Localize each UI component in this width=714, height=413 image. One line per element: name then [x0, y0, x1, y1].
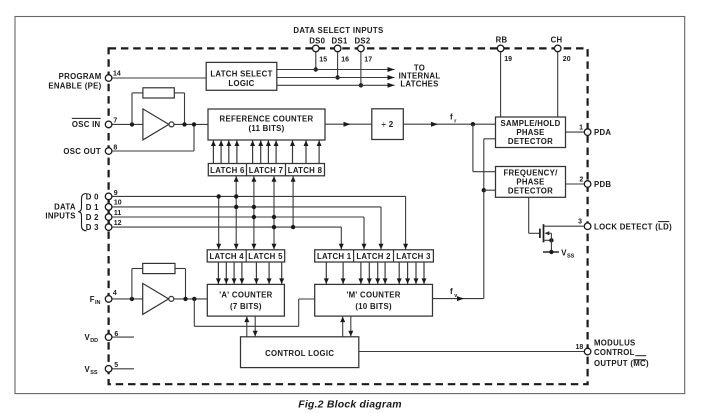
reference counter block: [208, 109, 325, 140]
svg-text:RB: RB: [496, 36, 508, 45]
svg-text:FREQUENCY/: FREQUENCY/: [503, 168, 558, 177]
svg-text:÷ 2: ÷ 2: [382, 120, 394, 129]
svg-text:LATCH 6: LATCH 6: [210, 166, 245, 175]
svg-text:(7 BITS): (7 BITS): [230, 302, 262, 311]
wire divide-by-2 to sample/hold node fr: [403, 123, 495, 125]
pin 8 terminal OSC OUT: [105, 148, 112, 155]
wire D0 tap down to latch 4: [218, 196, 220, 249]
wire FIN bypass to M counter: [193, 299, 195, 326]
svg-text:4: 4: [113, 290, 117, 297]
wire DS2 drop to latch-select output 3: [360, 52, 362, 86]
pin 11 terminal D2: [105, 214, 112, 221]
svg-text:PHASE: PHASE: [516, 128, 544, 137]
M counter block: [315, 284, 433, 316]
pin 3 terminal LD: [584, 223, 591, 230]
svg-text:LATCH SELECT: LATCH SELECT: [210, 69, 272, 78]
svg-text:14: 14: [113, 71, 121, 78]
pin 9 terminal D0: [105, 193, 112, 200]
wire fr branch to frequency/phase detector: [472, 124, 474, 172]
pin 10 terminal D1: [105, 204, 112, 211]
svg-text:LOGIC: LOGIC: [228, 79, 254, 88]
svg-text:(10 BITS): (10 BITS): [355, 302, 392, 311]
pin 4 terminal FIN: [105, 296, 112, 303]
svg-text:LATCH 5: LATCH 5: [248, 252, 283, 261]
svg-text:16: 16: [341, 56, 349, 63]
pin 18 terminal MC: [584, 348, 591, 355]
svg-text:DETECTOR: DETECTOR: [508, 186, 553, 195]
wire D0 drop to latch 3: [405, 196, 407, 249]
svg-text:CONTROL: CONTROL: [594, 348, 635, 357]
IC boundary dashed outline: [109, 48, 588, 384]
svg-text:'M' COUNTER: 'M' COUNTER: [346, 290, 400, 299]
wire M counter output fv: [433, 298, 484, 300]
pin 12 terminal D3: [105, 224, 112, 231]
frequency/phase detector block: [496, 167, 566, 198]
svg-text:INPUTS: INPUTS: [45, 211, 75, 220]
wire latch select output 3 to internal latches: [277, 84, 395, 86]
divide-by-2 block: [372, 109, 404, 140]
latch 6 7 8 row: [208, 164, 324, 176]
svg-text:3: 3: [578, 219, 582, 226]
wire Q1 drain to lock detect pin: [544, 225, 585, 227]
svg-text:5: 5: [114, 362, 118, 369]
wire CH to sample/hold phase detector: [557, 52, 559, 117]
svg-text:SS: SS: [90, 370, 98, 376]
svg-text:LATCH 7: LATCH 7: [249, 166, 283, 175]
wire latch select output 1 to internal latches: [277, 69, 395, 71]
svg-text:20: 20: [563, 56, 571, 63]
wire PE to latch select logic: [112, 77, 206, 79]
resistor R1 oscillator feedback: [131, 93, 133, 125]
wire IC-boundary segment behind data terminals: [107, 193, 109, 232]
inverter U2 FIN buffer: [143, 283, 169, 314]
svg-text:MODULUS: MODULUS: [594, 339, 636, 348]
A counter block: [207, 284, 284, 316]
svg-text:CH: CH: [551, 36, 563, 45]
wire PDA output: [566, 131, 585, 133]
svg-text:2: 2: [579, 176, 583, 183]
wire DS0 drop to latch-select output 1: [315, 52, 317, 70]
pin 15 terminal DS0: [313, 45, 320, 52]
wire D1 drop to latch 2: [380, 207, 382, 249]
sample/hold phase detector block: [496, 117, 566, 148]
svg-text:PROGRAM: PROGRAM: [59, 72, 102, 81]
brace data inputs: [78, 194, 86, 231]
wire VSS stub: [112, 368, 134, 370]
svg-text:CONTROL LOGIC: CONTROL LOGIC: [265, 349, 334, 358]
pin 6 terminal VDD: [105, 334, 112, 341]
wires latch123 to M counter 10 bits: [325, 262, 327, 284]
pin 19 terminal RB: [497, 45, 504, 52]
svg-text:D 0: D 0: [86, 192, 99, 201]
wire U2 output to A counter: [174, 298, 208, 300]
pin 20 terminal CH: [554, 45, 561, 52]
svg-text:18: 18: [576, 344, 584, 351]
resistor R2 FIN feedback: [131, 269, 133, 299]
pin 16 terminal DS1: [334, 45, 341, 52]
svg-text:LATCH 8: LATCH 8: [288, 166, 323, 175]
pin 2 terminal PDB: [584, 181, 591, 188]
svg-text:PDB: PDB: [594, 180, 611, 189]
latch select logic block: [206, 62, 277, 90]
svg-text:DATA: DATA: [54, 202, 76, 211]
svg-text:17: 17: [364, 56, 372, 63]
pin 17 terminal DS2: [358, 45, 365, 52]
svg-text:PDA: PDA: [594, 128, 611, 137]
svg-text:LATCHES: LATCHES: [400, 80, 438, 89]
wire column latch7 through D1 D2 to latch5: [253, 176, 255, 249]
svg-text:6: 6: [114, 331, 118, 338]
wire modulus control output: [359, 351, 585, 353]
svg-text:IN: IN: [95, 300, 101, 306]
svg-text:10: 10: [114, 200, 122, 207]
pin 1 terminal PDA: [584, 129, 591, 136]
control logic block: [241, 337, 359, 368]
svg-text:7: 7: [113, 117, 117, 124]
svg-text:DD: DD: [90, 338, 98, 344]
wires latch row 678 to reference counter 11 bits: [212, 141, 214, 164]
svg-text:1: 1: [579, 124, 583, 131]
svg-text:SAMPLE/HOLD: SAMPLE/HOLD: [500, 119, 560, 128]
latch 1 2 3 row: [315, 250, 434, 262]
inverter U1 oscillator: [143, 109, 169, 140]
svg-text:LATCH 1: LATCH 1: [317, 252, 352, 261]
wire D1 bus line: [112, 206, 381, 208]
wire frequency/phase detector to transistor gate: [528, 197, 530, 233]
pin 14 terminal PE: [105, 75, 112, 82]
pin 7 terminal OSC IN: [105, 121, 112, 128]
wire M counter to control logic: [342, 317, 344, 337]
wire FIN to inverter U2 input: [112, 298, 143, 300]
wire A counter to control logic: [246, 317, 248, 337]
wire D2 drop to latch 2: [363, 217, 365, 249]
svg-text:DS0: DS0: [309, 36, 325, 45]
svg-text:9: 9: [114, 190, 118, 197]
wire DS1 drop to latch-select output 2: [337, 52, 339, 78]
svg-text:PHASE: PHASE: [516, 177, 544, 186]
svg-text:OSC IN: OSC IN: [72, 120, 101, 129]
svg-text:LATCH 4: LATCH 4: [209, 252, 244, 261]
svg-text:8: 8: [113, 145, 117, 152]
wire reference counter to divide-by-2: [325, 123, 372, 125]
svg-text:(11 BITS): (11 BITS): [248, 124, 284, 133]
svg-text:DS1: DS1: [332, 36, 348, 45]
svg-text:DETECTOR: DETECTOR: [508, 137, 553, 146]
wire D2 bus line: [112, 216, 364, 218]
wire column latch7 through D2 D3 to latch5: [273, 176, 275, 249]
wire D3 bus line: [112, 226, 341, 228]
svg-text:Fig.2 Block diagram: Fig.2 Block diagram: [298, 398, 402, 410]
svg-text:11: 11: [114, 210, 122, 217]
svg-text:OSC OUT: OSC OUT: [63, 147, 101, 156]
svg-text:D 1: D 1: [86, 203, 99, 212]
wire U1 output to reference counter: [174, 123, 208, 125]
svg-text:DS2: DS2: [354, 36, 370, 45]
wire VDD stub: [112, 336, 134, 338]
svg-text:'A' COUNTER: 'A' COUNTER: [219, 290, 272, 299]
svg-text:12: 12: [114, 220, 122, 227]
wire OSC OUT to inverter U1 output: [112, 150, 194, 152]
latch 4 5 row: [207, 250, 285, 262]
wire PDB output: [566, 183, 585, 185]
svg-text:SS: SS: [567, 254, 575, 260]
svg-text:LATCH 3: LATCH 3: [396, 252, 431, 261]
wire OSC IN to inverter U1 input: [112, 123, 143, 125]
wire D3 drop to latch 1: [340, 227, 342, 249]
svg-text:D 3: D 3: [86, 223, 99, 232]
svg-text:19: 19: [504, 56, 512, 63]
wire D0 bus line: [112, 195, 406, 197]
wire fv to sample/hold and frequency/phase detectors: [483, 139, 485, 299]
svg-text:REFERENCE COUNTER: REFERENCE COUNTER: [220, 115, 314, 124]
svg-text:f: f: [450, 113, 453, 122]
wire latch select output 2 to internal latches: [277, 77, 395, 79]
svg-text:D 2: D 2: [86, 213, 99, 222]
svg-text:15: 15: [319, 56, 327, 63]
svg-text:DATA SELECT INPUTS: DATA SELECT INPUTS: [293, 26, 383, 35]
svg-text:f: f: [450, 287, 453, 296]
pin 5 terminal VSS: [105, 366, 112, 373]
wire RB to sample/hold phase detector: [500, 52, 502, 117]
wires latch45 to A counter 7 bits: [217, 262, 219, 284]
svg-text:ENABLE (PE): ENABLE (PE): [48, 82, 101, 91]
wire D3 tap up to latch 8: [292, 176, 294, 227]
svg-text:LATCH 2: LATCH 2: [356, 252, 391, 261]
wire column latch6 through D0 D1 to latch4: [235, 176, 237, 249]
ground VSS at Q1 source: [549, 250, 553, 254]
svg-text:LOCK DETECT (LD): LOCK DETECT (LD): [594, 222, 672, 231]
transistor Q1 lock detect: [539, 229, 541, 238]
